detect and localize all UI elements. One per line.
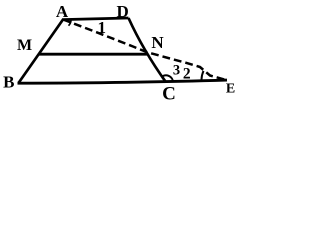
angle arc 1 at A <box>69 20 72 26</box>
svg-text:M: M <box>17 37 32 54</box>
svg-text:A: A <box>56 2 69 21</box>
wire dashed AE <box>63 20 227 81</box>
wire bottom line B to E <box>18 80 228 83</box>
wire left leg AB <box>19 20 64 84</box>
svg-text:2: 2 <box>183 65 191 82</box>
angle arc at C <box>163 75 174 82</box>
wire midline MN <box>39 53 147 56</box>
angle arc at E <box>202 71 204 80</box>
wire top side AD <box>62 18 129 20</box>
svg-text:C: C <box>162 84 176 101</box>
svg-text:N: N <box>151 33 164 52</box>
svg-text:D: D <box>117 2 129 21</box>
svg-text:E: E <box>226 82 235 97</box>
svg-text:B: B <box>3 73 14 92</box>
svg-text:1: 1 <box>97 18 106 37</box>
wire right leg DC <box>129 18 167 82</box>
svg-text:3: 3 <box>173 62 180 78</box>
